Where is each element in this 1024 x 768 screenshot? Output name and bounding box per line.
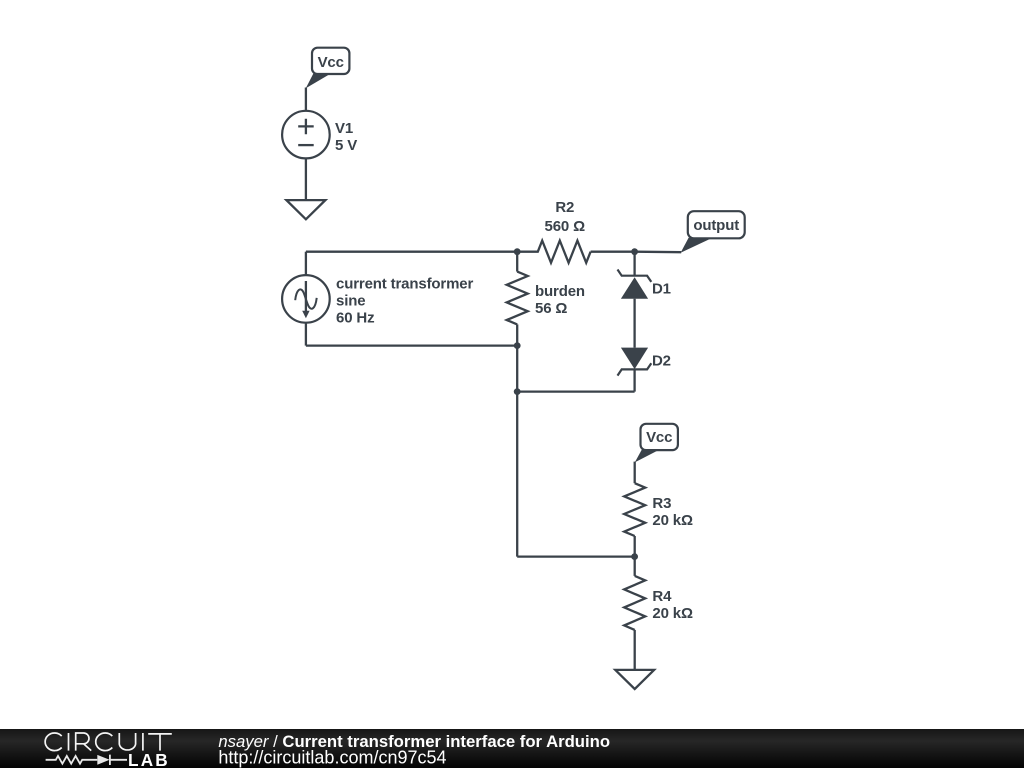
wire R3 to divider node bbox=[634, 536, 636, 557]
node junction bottom-left bbox=[514, 342, 521, 349]
wire to output flag bbox=[635, 251, 682, 254]
Vcc lower flag tail bbox=[635, 449, 659, 462]
voltage source V1 bbox=[282, 111, 330, 159]
svg-text:D1: D1 bbox=[652, 281, 671, 298]
svg-text:56 Ω: 56 Ω bbox=[535, 300, 567, 317]
zener diode D1 (cathode up) bbox=[618, 270, 652, 282]
wire source top to loop corner bbox=[305, 252, 307, 275]
resistor R4 20k (vertical) bbox=[624, 576, 645, 630]
current source I1 (current transformer) bbox=[282, 275, 330, 323]
net flag Vcc (lower) bbox=[641, 424, 678, 450]
svg-text:R2: R2 bbox=[555, 199, 574, 216]
wire D2 to bottom return bbox=[633, 369, 635, 391]
svg-text:current transformer: current transformer bbox=[336, 275, 474, 292]
svg-text:20 kΩ: 20 kΩ bbox=[652, 605, 693, 622]
footer bar bbox=[0, 729, 1024, 768]
wire node to R4 bbox=[634, 557, 636, 576]
svg-text:output: output bbox=[693, 217, 739, 234]
net flag Vcc (top) bbox=[312, 48, 349, 74]
wire bottom horizontal bbox=[306, 344, 517, 346]
V1 minus sign bbox=[298, 144, 314, 146]
svg-text:60 Hz: 60 Hz bbox=[336, 309, 374, 326]
V1 plus sign bbox=[298, 119, 314, 135]
logo LAB text bbox=[128, 732, 610, 768]
svg-text:5 V: 5 V bbox=[335, 137, 357, 154]
wire node to D1 bbox=[633, 252, 635, 276]
svg-text:Vcc: Vcc bbox=[646, 429, 672, 446]
ground under V1 bbox=[286, 200, 325, 219]
resistor burden 56 ohm (vertical) bbox=[507, 272, 528, 325]
wire R4 to ground bbox=[634, 630, 636, 670]
resistor R3 20k (vertical) bbox=[624, 483, 645, 536]
net flag output bbox=[688, 211, 745, 238]
ground bottom bbox=[615, 670, 654, 689]
node junction divider bbox=[631, 553, 638, 560]
current source arrow bbox=[305, 281, 307, 313]
svg-text:560 Ω: 560 Ω bbox=[545, 218, 586, 235]
wire D2 return horizontal bbox=[517, 390, 634, 392]
wire left rail to divider node bbox=[517, 555, 634, 557]
logo resistor-diode squiggle bbox=[46, 755, 127, 765]
node junction output bbox=[631, 248, 638, 255]
output flag tail bbox=[681, 238, 712, 253]
wire node to burden bbox=[516, 252, 518, 272]
wire D1 to D2 bbox=[633, 299, 635, 348]
svg-text:R4: R4 bbox=[652, 588, 672, 605]
wire top horizontal to burden node bbox=[306, 251, 517, 253]
wire left rail down bbox=[516, 346, 518, 557]
node junction left rail / D2 return bbox=[514, 388, 521, 395]
current source sine bbox=[295, 289, 317, 308]
svg-text:burden: burden bbox=[535, 283, 585, 300]
resistor R2 560 ohm (horizontal) bbox=[517, 241, 590, 263]
Vcc flag tail bbox=[306, 73, 330, 88]
svg-text:sine: sine bbox=[336, 292, 365, 309]
logo CIRCUIT letters bbox=[45, 733, 172, 751]
wire burden to bottom node bbox=[516, 324, 518, 345]
zener diode D2 (cathode down) bbox=[621, 348, 648, 370]
svg-text:V1: V1 bbox=[335, 120, 353, 137]
wire R2 to output node bbox=[591, 251, 635, 253]
svg-text:R3: R3 bbox=[652, 495, 671, 512]
wire Vcc to V1 bbox=[305, 88, 307, 111]
svg-text:http://circuitlab.com/cn97c54: http://circuitlab.com/cn97c54 bbox=[218, 748, 446, 768]
wire V1 to ground bbox=[305, 158, 307, 200]
svg-text:LAB: LAB bbox=[128, 750, 170, 768]
node junction top (burden) bbox=[514, 248, 521, 255]
svg-text:20 kΩ: 20 kΩ bbox=[652, 512, 693, 529]
svg-text:D2: D2 bbox=[652, 352, 671, 369]
svg-text:Vcc: Vcc bbox=[318, 54, 344, 71]
wire Vcc to R3 bbox=[634, 462, 636, 484]
wire source bottom corner bbox=[305, 323, 307, 346]
